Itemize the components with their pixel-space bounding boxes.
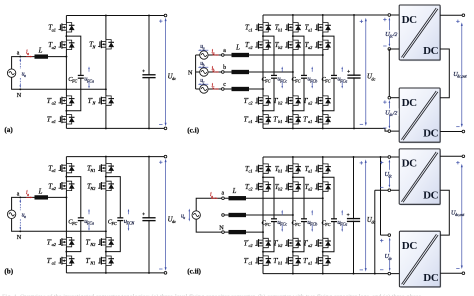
transistor T_c1 (c.i): [255, 22, 272, 33]
wire DC-link branch (c.i): [353, 15, 355, 128]
wire phase row N (c.ii): [224, 231, 263, 233]
transistor T'_a1 (c.ii): [315, 255, 332, 266]
transistor T_N2 (b): [98, 180, 115, 191]
output terminal - (a): [164, 127, 167, 130]
transistor T_a1 (c.i): [315, 22, 332, 33]
DC-DC converter block B2 (c.i) bottom: [399, 88, 441, 143]
svg-text:N: N: [17, 234, 22, 241]
wire bottom rail (a): [66, 127, 165, 129]
label U_dc (a) with arrow: [165, 20, 167, 123]
AC source u_b (c.i): [200, 68, 208, 76]
transistor T'_a2 (b): [58, 237, 75, 248]
junctions (c.i): [262, 35, 264, 37]
DC-link capacitor C_dc (c.i): [347, 75, 361, 79]
label U_dc/2 upper (c.i): [388, 20, 390, 45]
AC sources (c.i): [195, 55, 197, 89]
transistor T'_a1 (a): [58, 114, 75, 125]
transistor T'_a2 (c.ii): [315, 238, 332, 249]
svg-text:L: L: [232, 188, 237, 195]
wire DC-link branch (c.ii): [353, 157, 355, 274]
current arrow i_b: [213, 71, 217, 73]
transistor T'_a2 (c.i): [315, 95, 332, 106]
svg-text:(c.ii): (c.ii): [187, 267, 201, 275]
junctions (a): [65, 35, 67, 37]
wire legs (c.i): [262, 15, 264, 128]
wire right leg (a): [105, 16, 107, 129]
flying capacitor C_FCc (c.ii): [271, 218, 278, 222]
node N (b): [19, 230, 21, 232]
svg-text:DC: DC: [402, 14, 418, 26]
transistor T'_a1 (b): [58, 255, 75, 266]
label U_dc (c.i) with arrow: [365, 21, 367, 124]
wire flying-cap branch N (b): [106, 177, 120, 252]
AC source u_a (c.i): [196, 54, 200, 56]
inductor L b (c.ii): [229, 213, 247, 217]
svg-text:DC: DC: [423, 127, 439, 139]
svg-text:DC: DC: [402, 240, 418, 252]
wire outputs (c.ii): [440, 155, 463, 157]
node a (c.i): [222, 54, 225, 57]
transistor T'_a1 (c.i): [315, 114, 332, 125]
svg-text:N: N: [188, 70, 193, 77]
svg-text:a: a: [17, 51, 20, 57]
transistor T'_a2 (a): [58, 95, 75, 106]
wire phase row a (c.i): [224, 54, 323, 56]
svg-text:N: N: [219, 224, 224, 231]
svg-text:a: a: [223, 48, 226, 54]
inductor L b (c.i): [232, 70, 250, 74]
label U_dc (c.ii) with arrow: [365, 162, 367, 269]
node c (c.i): [222, 88, 225, 91]
wire phase row c (c.i): [224, 88, 263, 90]
transistor T'_b2 (c.i): [285, 95, 302, 106]
transistor T_c2 (c.ii): [255, 181, 272, 192]
svg-text:N: N: [17, 92, 22, 99]
transistor T_c2 (c.i): [255, 39, 272, 50]
inductor L a (c.ii): [229, 196, 247, 200]
current arrow i_a: [26, 56, 30, 58]
svg-text:b: b: [223, 65, 226, 71]
wire DC-link branch (a): [148, 16, 150, 129]
svg-text:DC: DC: [423, 45, 439, 57]
flying capacitor C_FCa (b): [77, 217, 84, 221]
flying capacitor C_FCN (b): [117, 217, 124, 221]
AC source u_a (b): [7, 210, 15, 218]
label U_dc,out (c.i) with arrow: [461, 25, 463, 124]
inductor L (a): [35, 54, 49, 58]
wire DC-link branch (b): [148, 157, 150, 273]
svg-text:DC: DC: [423, 190, 439, 202]
svg-text:(b): (b): [4, 267, 13, 275]
transistor T'_c1 (c.i): [255, 114, 272, 125]
output terminal + (a): [164, 14, 167, 17]
transistor T'_b1 (c.i): [285, 114, 302, 125]
transistor T_b1 (c.ii): [285, 163, 302, 174]
transistor T'_N (a): [98, 95, 115, 106]
wire legs (c.ii): [262, 157, 264, 274]
flying capacitor C_FCa (a): [77, 75, 84, 79]
wire bottom rail (c.ii): [263, 273, 399, 275]
AC source u_c (c.i): [196, 88, 200, 90]
output terminal - (b): [164, 272, 167, 275]
wire top rail (c.ii): [263, 156, 399, 158]
wire left leg (a): [65, 16, 67, 129]
transistor T_b2 (c.i): [285, 39, 302, 50]
DC-DC converter block B3 (c.ii) top: [399, 149, 441, 206]
wire flying-cap branch (c.i): [263, 36, 274, 111]
label U_dc (b) with arrow: [165, 162, 167, 268]
node b (c.i): [222, 71, 225, 74]
label u_a (a) with measurement arrow: [19, 61, 21, 70]
flying capacitor C_FCa (c.ii): [331, 218, 338, 222]
svg-text:L: L: [235, 45, 240, 52]
label U_dc upper (c.ii): [388, 162, 390, 186]
transistor T'_N2 (b): [98, 237, 115, 248]
wire phase row b (c.i): [224, 71, 293, 73]
wire top rail (a): [66, 15, 165, 17]
DC-link capacitor C_dc (c.ii): [347, 218, 361, 222]
transistor T_a2 (b): [58, 180, 75, 191]
flying capacitor C_FCb (c.i): [301, 75, 308, 79]
transistor T_a1 (b): [58, 163, 75, 174]
node b (c.ii): [222, 214, 225, 217]
flying capacitor C_FCb (c.ii): [301, 218, 308, 222]
flying capacitor C_FCc (c.i): [271, 75, 278, 79]
AC source u_c (c.i): [200, 85, 208, 93]
junctions (c.ii): [262, 176, 264, 178]
node a (c.ii): [222, 197, 225, 200]
current arrow i_a: [213, 54, 217, 56]
wire flying-cap branch (c.i): [323, 36, 334, 111]
wire phase row b (c.ii): [224, 214, 293, 216]
svg-text:DC: DC: [402, 97, 418, 109]
svg-text:c: c: [223, 82, 226, 88]
node N (a): [19, 88, 21, 90]
transistor T_a2 (c.ii): [315, 181, 332, 192]
wire outputs (c.i): [440, 14, 463, 16]
node a (b): [19, 196, 21, 198]
svg-text:DC: DC: [423, 272, 439, 284]
wire flying-cap branch (c.ii): [263, 177, 274, 252]
transistor T_b1 (c.i): [285, 22, 302, 33]
transistor T_N1 (b): [98, 163, 115, 174]
DC-link capacitor C_dc (a): [142, 74, 156, 78]
svg-text:DC: DC: [402, 158, 418, 170]
svg-text:a: a: [17, 191, 20, 197]
label U_dc/2 lower (c.i): [388, 102, 390, 126]
wire left leg (b): [65, 157, 67, 273]
wire flying-cap branch a (b): [66, 177, 80, 252]
transistor T'_b2 (c.ii): [285, 238, 302, 249]
AC source wires (b): [12, 197, 106, 231]
junctions (b): [65, 176, 67, 178]
wire series link input (c.i): [388, 49, 390, 98]
label u_a (b) with measurement arrow: [19, 201, 21, 210]
wire top rail (b): [66, 156, 165, 158]
flying capacitor C_FCa (c.i): [331, 75, 338, 79]
inductor L a (c.i): [232, 53, 250, 57]
inductor L c (c.i): [232, 87, 250, 91]
wire flying-cap branch (c.ii): [323, 177, 334, 252]
svg-text:(a): (a): [4, 126, 13, 134]
AC source u_a (c.ii): [192, 211, 200, 219]
inductor L N (c.ii): [229, 230, 247, 234]
label U_dc,out (c.ii) with arrow: [461, 167, 463, 267]
svg-text:(c.i): (c.i): [187, 127, 199, 135]
node N (c.ii): [222, 231, 225, 234]
AC source u_b (c.i): [196, 71, 200, 73]
transistor T_c1 (c.ii): [255, 163, 272, 174]
transistor T'_c1 (c.ii): [255, 255, 272, 266]
transistor T'_b1 (c.ii): [285, 255, 302, 266]
DC-DC converter block B1 (c.i) top: [399, 5, 441, 61]
current arrow i_c: [213, 88, 217, 90]
node a (a): [19, 56, 21, 58]
AC source u_a (c.ii): [196, 198, 222, 232]
transistor T'_N1 (b): [98, 255, 115, 266]
DC-link capacitor C_dc (b): [142, 217, 156, 221]
wire top rail (c.i): [263, 14, 399, 16]
label U_dc lower (c.ii): [389, 240, 391, 269]
current arrow i_a: [26, 196, 30, 198]
transistor T_a2 (a): [58, 39, 75, 50]
DC-DC converter block B4 (c.ii) bottom: [399, 231, 441, 288]
inductor L (b): [35, 195, 49, 199]
transistor T_a2 (c.i): [315, 39, 332, 50]
wire right leg (b): [105, 157, 107, 273]
svg-text:L: L: [38, 188, 43, 195]
AC source u_a (c.i): [200, 51, 208, 59]
transistor T'_c2 (c.i): [255, 95, 272, 106]
current arrow i_a: [211, 197, 215, 199]
svg-text:L: L: [38, 48, 43, 55]
wire bottom rail (b): [66, 272, 165, 274]
wire flying-cap branch (c.i): [293, 36, 304, 111]
output terminal + (b): [164, 155, 167, 158]
block input terminals (c.i): [388, 14, 391, 17]
transistor T_a1 (c.ii): [315, 163, 332, 174]
wire bottom rail (c.i): [263, 128, 399, 131]
block input wiring (c.ii): [388, 156, 391, 159]
AC source wires (a): [12, 57, 106, 90]
transistor T_N (a): [98, 39, 115, 50]
wire flying-cap branch (c.ii): [293, 177, 304, 252]
transistor T_b2 (c.ii): [285, 181, 302, 192]
wire phase row a (c.ii): [224, 197, 322, 199]
AC source u_a (a): [7, 69, 15, 77]
wire flying-cap branch (a): [66, 36, 80, 111]
transistor T'_c2 (c.ii): [255, 238, 272, 249]
transistor T_a1 (a): [58, 22, 75, 33]
svg-text:a: a: [222, 191, 225, 197]
